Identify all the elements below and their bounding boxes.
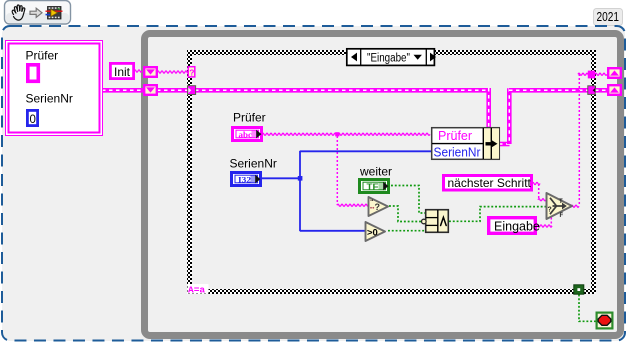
- right shift register (cluster): [608, 85, 621, 95]
- svg-text:“: “: [370, 199, 374, 206]
- string control terminal abc: [233, 128, 262, 141]
- svg-text:TF: TF: [367, 181, 379, 191]
- right shift register (string): [608, 68, 621, 78]
- select node: [547, 193, 573, 219]
- version tab 2021: [594, 9, 623, 26]
- wire: SerienNr to bundle input: [300, 150, 432, 152]
- numeric terminal I32: [232, 173, 261, 186]
- wire: right tunnel to right shift register 2: [595, 88, 608, 93]
- svg-text:?: ?: [548, 206, 552, 213]
- wire: case bottom tunnel to loop condition: [579, 295, 596, 322]
- wire: SerienNr vertical branch: [299, 151, 301, 231]
- svg-text:T: T: [559, 199, 563, 205]
- svg-text:F: F: [560, 213, 564, 219]
- cluster constant frame (Pruefer/SerienNr): [6, 41, 103, 136]
- loop condition stop terminal: [597, 313, 613, 329]
- toolbar box: [5, 1, 71, 25]
- wire: right tunnel to right shift register 1: [595, 73, 607, 75]
- wire: SerienNr to greater-than-zero node: [300, 230, 366, 232]
- wire: bundle output rise (vertical): [507, 88, 512, 144]
- while loop border: [145, 34, 621, 336]
- wire: Pruefer string down to empty-string node: [336, 136, 338, 205]
- wire: left shift register to case selector tunnel: [157, 71, 189, 73]
- case-sensitivity marker A=a: [188, 284, 209, 295]
- wire: shift register 2 into case tunnel: [157, 88, 189, 93]
- string constant naechster Schritt: [444, 176, 532, 191]
- svg-text:?: ?: [189, 67, 194, 77]
- svg-text:abc: abc: [239, 129, 253, 139]
- cluster numeric 0: [27, 110, 37, 125]
- wire: weiter TF to AND input: [391, 186, 426, 214]
- svg-text:"Eingabe": "Eingabe": [367, 52, 410, 64]
- cluster string control: [28, 65, 39, 82]
- wire: AND output to select node: [449, 207, 546, 222]
- right tunnel (string out): [588, 71, 595, 79]
- svg-text:Prüfer: Prüfer: [438, 129, 472, 143]
- wire: cluster tunnel to bundle node (horizontal): [195, 88, 489, 93]
- left shift register (cluster): [144, 85, 157, 95]
- wire: Pruefer string terminal to bundle: [262, 133, 430, 135]
- case selector label: [347, 49, 436, 66]
- wire: bundle output to right tunnel: [509, 88, 589, 93]
- greater-than-zero node: [366, 222, 386, 241]
- wire: Eingabe to select f input: [536, 225, 552, 227]
- bundle-by-name node: [432, 128, 500, 160]
- string constant Eingabe: [489, 218, 540, 234]
- svg-text:SerienNr: SerienNr: [230, 156, 277, 170]
- empty-string? comparison node: [369, 197, 389, 216]
- compound AND node: [422, 197, 449, 232]
- wire: select output up to right tunnel: [571, 205, 579, 207]
- case selector tunnel ?: [188, 67, 195, 78]
- junction on Pruefer string wire: [335, 132, 339, 136]
- wire: greater-zero to AND input: [388, 230, 426, 232]
- wire: cluster drop into bundle (vertical): [486, 88, 491, 128]
- toolbar VI-film icon: [46, 7, 63, 20]
- svg-text:>0: >0: [367, 227, 378, 238]
- svg-text:Eingabe: Eingabe: [494, 220, 540, 234]
- toolbar hand icon: [12, 5, 25, 20]
- left cluster tunnel: [188, 86, 196, 95]
- svg-text:SerienNr: SerienNr: [26, 92, 73, 106]
- wire: empty-string? to AND inverted input: [389, 206, 421, 222]
- svg-text:A=a: A=a: [188, 284, 205, 295]
- wire: naechster Schritt to select t input: [532, 182, 540, 184]
- case structure checkered border: [187, 50, 596, 294]
- boolean terminal TF: [360, 180, 389, 193]
- svg-text:nächster Schritt: nächster Schritt: [448, 176, 532, 190]
- left shift register (string): [144, 67, 157, 77]
- svg-text:SerienNr: SerienNr: [434, 145, 481, 159]
- string constant Init: [110, 63, 133, 78]
- wire: SerienNr terminal horizontal: [261, 177, 300, 179]
- svg-text:0: 0: [30, 114, 36, 126]
- svg-text:I32: I32: [238, 174, 251, 184]
- svg-text:?: ?: [375, 202, 381, 212]
- junction on SerienNr wire: [298, 176, 303, 181]
- wire: cluster constant to left shift register 2: [102, 88, 144, 93]
- svg-text:Prüfer: Prüfer: [26, 49, 59, 63]
- svg-text:weiter: weiter: [359, 164, 392, 178]
- wire: Init string to left shift register: [134, 70, 142, 72]
- svg-text:2021: 2021: [597, 10, 620, 24]
- right tunnel (cluster out): [588, 86, 595, 95]
- svg-text:Init: Init: [114, 65, 131, 79]
- toolbar arrow icon: [30, 8, 42, 17]
- svg-text:Prüfer: Prüfer: [233, 110, 266, 124]
- wire: bundle output right: [499, 142, 510, 147]
- case bottom boolean tunnel: [574, 285, 584, 294]
